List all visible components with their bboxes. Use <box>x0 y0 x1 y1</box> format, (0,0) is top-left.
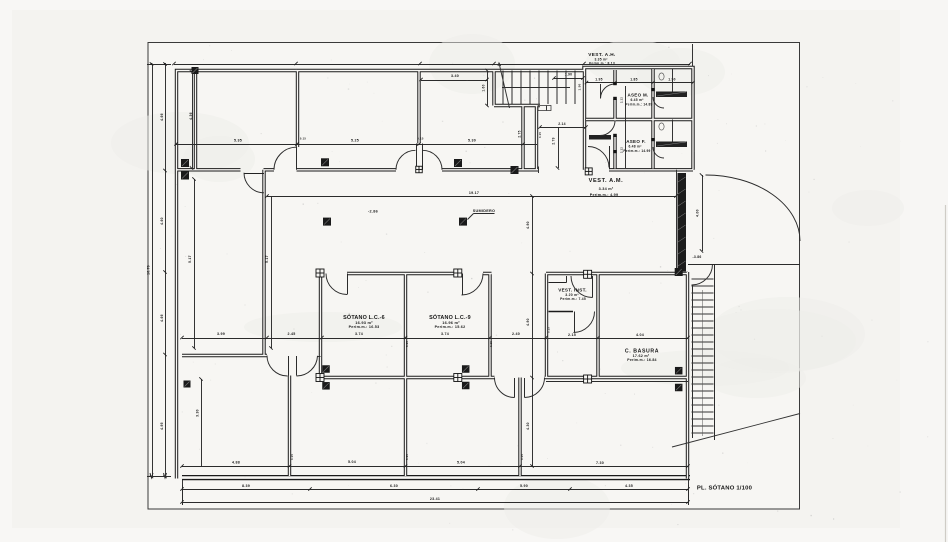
svg-text:SUMIDERO: SUMIDERO <box>473 209 495 213</box>
svg-text:VEST. INST.: VEST. INST. <box>558 288 587 293</box>
column corridor 3 <box>511 166 519 174</box>
svg-text:Perim.m.: 16.84: Perim.m.: 16.84 <box>627 358 656 362</box>
svg-text:5.04: 5.04 <box>457 460 465 464</box>
svg-text:Perim.m.: 14.89: Perim.m.: 14.89 <box>625 102 652 106</box>
svg-text:0.15: 0.15 <box>300 137 306 141</box>
svg-text:Perim.m.: 14.99: Perim.m.: 14.99 <box>623 149 650 153</box>
svg-text:1.85: 1.85 <box>630 77 637 81</box>
left dim chain line 16.70 <box>152 64 154 477</box>
double door rooms 2/3 leaves+arcs <box>416 144 418 170</box>
stair dim 1.90 <box>554 78 583 80</box>
left chain arrow 1 <box>150 473 153 478</box>
svg-text:3.74: 3.74 <box>355 332 363 336</box>
column strip top <box>192 67 199 74</box>
column aseo corner jamb <box>585 168 592 175</box>
svg-text:3.34 m²: 3.34 m² <box>599 187 614 191</box>
vest AM right wall line <box>676 170 678 272</box>
column corridor 2 <box>454 159 462 167</box>
stair block dim 3.40 <box>421 80 487 82</box>
building walls (double line) <box>177 68 694 479</box>
top overall dimension line <box>174 64 690 66</box>
top rooms dimension line <box>176 144 537 146</box>
toilets <box>659 73 664 80</box>
aseo M bench (hatched) <box>656 92 687 98</box>
svg-text:2.79: 2.79 <box>552 137 556 144</box>
svg-text:4.35: 4.35 <box>625 484 633 488</box>
svg-text:VEST. A.M.: VEST. A.M. <box>589 178 624 184</box>
svg-text:2.14: 2.14 <box>558 122 566 126</box>
central vertical dim 4.90 <box>532 196 534 466</box>
ramp entry door arc <box>692 264 713 285</box>
svg-text:0.15: 0.15 <box>489 341 493 347</box>
property line to frame top-right <box>692 44 694 67</box>
svg-text:7.30: 7.30 <box>596 461 604 465</box>
ramp strip walls <box>692 285 694 438</box>
column left wall lower <box>181 172 189 180</box>
column pasillo left <box>323 218 331 226</box>
svg-text:2.40: 2.40 <box>512 332 520 336</box>
svg-text:PL. SÓTANO 1/100: PL. SÓTANO 1/100 <box>697 484 753 492</box>
svg-text:3.30: 3.30 <box>196 409 200 417</box>
sumidero leader <box>468 214 474 220</box>
svg-text:0.15: 0.15 <box>405 341 409 347</box>
stair direction line <box>499 63 510 108</box>
svg-text:0.15: 0.15 <box>538 132 542 138</box>
corridor opening jamb near landing <box>538 167 540 174</box>
LC9 door leaf+arc <box>462 274 464 296</box>
svg-text:1.60: 1.60 <box>482 84 486 91</box>
pasillo width dim 19.17 <box>267 196 676 198</box>
svg-text:8.39: 8.39 <box>242 484 250 488</box>
svg-text:Perim.m.: 16.53: Perim.m.: 16.53 <box>349 325 380 329</box>
landing dim vline <box>558 127 560 168</box>
svg-text:5.90: 5.90 <box>520 484 528 488</box>
column vest inst bottom <box>584 375 592 383</box>
svg-text:19.17: 19.17 <box>469 191 479 195</box>
big quarter arc (ramp gate swing) <box>706 175 801 241</box>
ramp top horizontal line <box>688 264 800 266</box>
svg-text:5.30: 5.30 <box>468 139 476 143</box>
LC6 door leaf+arc <box>347 274 349 295</box>
svg-text:VEST. A.H.: VEST. A.H. <box>588 52 616 57</box>
bottom exterior wall (thick double) <box>182 475 690 480</box>
column c basura 2 <box>675 384 683 392</box>
svg-text:3.40: 3.40 <box>451 74 459 78</box>
column mid wall 3 <box>584 270 592 278</box>
svg-text:1.95: 1.95 <box>595 77 602 81</box>
svg-text:16.70: 16.70 <box>147 265 151 275</box>
page right scan edge <box>945 205 947 542</box>
bottom rooms dimension line <box>182 466 688 468</box>
pasillo dim 5.17 <box>271 196 273 348</box>
landing dim 2.14 <box>540 127 586 129</box>
svg-text:ASEO F.: ASEO F. <box>626 139 646 144</box>
svg-text:5.25: 5.25 <box>351 139 359 143</box>
vest AM to aseo vestibule door leaf+arc <box>609 146 611 169</box>
aseo interior dim line <box>625 86 627 168</box>
svg-text:2.45: 2.45 <box>288 332 296 336</box>
svg-text:4.90: 4.90 <box>526 221 530 229</box>
svg-text:23.41: 23.41 <box>430 497 440 501</box>
left dim chain line segments <box>165 64 167 477</box>
bottom overall dimension line 23.41 <box>182 502 688 504</box>
svg-text:-2.86: -2.86 <box>368 210 378 214</box>
svg-text:2.12: 2.12 <box>620 97 624 103</box>
column cluster B upper <box>462 365 470 373</box>
svg-text:4.88: 4.88 <box>232 460 240 464</box>
dim extension left <box>182 480 184 505</box>
svg-text:5.35: 5.35 <box>234 139 242 143</box>
svg-text:1.50: 1.50 <box>578 83 582 90</box>
svg-text:4.36: 4.36 <box>189 112 193 120</box>
stair landing step <box>538 106 551 111</box>
svg-text:4.00: 4.00 <box>696 209 700 217</box>
ASEO block dim line <box>587 82 694 84</box>
aseo door arcs from vest wall <box>601 84 616 99</box>
svg-text:-3.86: -3.86 <box>693 255 702 259</box>
stair width dim line <box>487 71 489 106</box>
svg-text:2.75: 2.75 <box>518 130 522 137</box>
left chain arrow 2 <box>164 473 167 478</box>
svg-text:1.90: 1.90 <box>668 77 675 81</box>
aseo stall door arcs <box>653 97 664 108</box>
column c basura 1 <box>675 367 683 375</box>
aseo F bench (hatched) <box>656 142 687 148</box>
vest inst lower door arc <box>574 312 595 333</box>
svg-text:Perim.m.: 4.99: Perim.m.: 4.99 <box>590 193 619 197</box>
column cluster B cross <box>454 374 462 382</box>
site boundary diagonal <box>672 414 800 448</box>
room A dim 5.17 <box>194 179 196 348</box>
column mid wall 2 <box>454 269 462 277</box>
ramp centerline <box>702 290 704 436</box>
svg-text:0.15: 0.15 <box>547 327 551 333</box>
middle dimension line across rooms <box>182 338 688 340</box>
svg-text:3.74: 3.74 <box>441 332 449 336</box>
svg-text:4.30: 4.30 <box>526 422 530 430</box>
drawing sheet frame <box>148 43 800 510</box>
svg-text:4.04: 4.04 <box>636 333 644 337</box>
svg-text:3.99: 3.99 <box>217 332 225 336</box>
column room B <box>184 381 191 388</box>
double door room A to bottom rooms <box>288 356 290 376</box>
scan mottling <box>586 40 680 84</box>
door room A (top) leaf+arc <box>244 173 264 175</box>
svg-text:4.60: 4.60 <box>160 217 164 225</box>
column cluster A cross <box>316 374 324 382</box>
svg-text:4.66: 4.66 <box>160 314 164 322</box>
vestibule bench (hatched) <box>589 135 611 140</box>
svg-text:2.15: 2.15 <box>568 333 576 337</box>
svg-text:5.17: 5.17 <box>265 255 269 263</box>
vest inst notch <box>549 282 567 284</box>
ramp treads <box>692 279 714 433</box>
svg-text:4.66: 4.66 <box>160 113 164 121</box>
svg-text:Perim.m.: 8.13: Perim.m.: 8.13 <box>589 62 615 66</box>
ramp area dim 4.00 <box>702 175 704 251</box>
column corridor 1 <box>321 158 329 166</box>
staircase treads <box>503 71 575 105</box>
vest inst inner wall <box>549 311 574 313</box>
vest inst top door arc <box>571 276 593 298</box>
svg-text:5.04: 5.04 <box>348 460 356 464</box>
column cluster B lower <box>462 382 470 390</box>
svg-text:0.15: 0.15 <box>520 454 524 460</box>
stair arrow head <box>498 63 501 66</box>
aseo stall partitions <box>672 69 674 92</box>
bottom band double door <box>514 378 516 398</box>
svg-text:5.17: 5.17 <box>188 255 192 263</box>
column mid wall right <box>675 268 683 276</box>
svg-text:Perim.m.: 15.62: Perim.m.: 15.62 <box>435 325 466 329</box>
aseo jamb blocks <box>613 82 617 85</box>
door room1 leaf+arc <box>296 147 298 170</box>
bottom dimension line (segments) <box>182 489 688 491</box>
room A lower dim 3.30 <box>201 379 203 466</box>
stair stringer <box>502 87 570 89</box>
column pasillo right / sumidero <box>459 218 467 226</box>
svg-text:Perim.m.: 7.45: Perim.m.: 7.45 <box>560 297 586 301</box>
strip dim 4.36 <box>192 72 194 168</box>
column mid wall 1 <box>316 269 324 277</box>
column corridor door center <box>416 166 423 173</box>
svg-text:0.15: 0.15 <box>405 454 409 460</box>
hatched wall (dark bar) <box>678 173 687 272</box>
scan speckle <box>160 45 929 530</box>
column left wall upper <box>181 159 189 167</box>
svg-text:0.15: 0.15 <box>290 454 294 460</box>
c basura bottom wall second line <box>546 381 688 383</box>
svg-text:ASEO M.: ASEO M. <box>627 93 648 98</box>
svg-text:4.90: 4.90 <box>526 318 530 326</box>
svg-text:4.95: 4.95 <box>160 422 164 430</box>
column cluster A upper <box>322 365 330 373</box>
svg-text:0.15: 0.15 <box>417 137 423 141</box>
dim extension right <box>688 478 690 505</box>
column cluster A lower <box>322 382 330 390</box>
svg-text:6.30: 6.30 <box>390 484 398 488</box>
